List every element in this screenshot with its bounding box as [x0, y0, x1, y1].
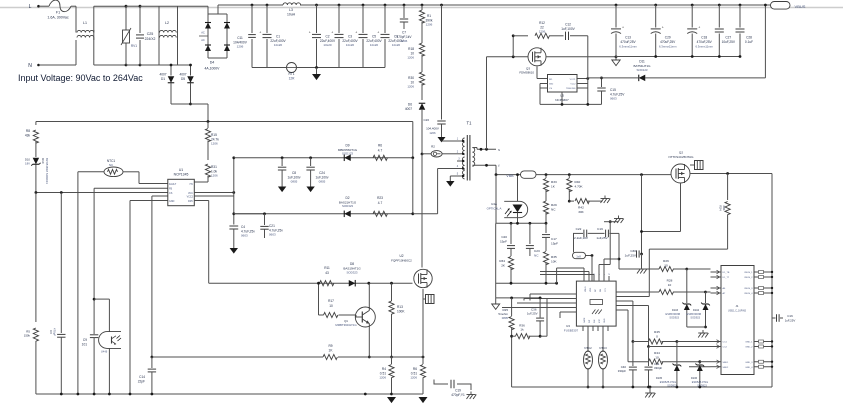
wire U2 source	[422, 289, 424, 357]
optocoupler U4A	[517, 175, 519, 202]
svg-text:22pF: 22pF	[138, 380, 145, 384]
resistor R4	[391, 357, 393, 364]
svg-text:0805: 0805	[502, 316, 509, 320]
wire VCC2 pin	[194, 195, 234, 197]
svg-text:150k: 150k	[24, 334, 31, 338]
svg-text:C27: C27	[725, 36, 731, 40]
wire VCC to C21 row	[234, 213, 265, 215]
bridge rectifier D4	[178, 5, 209, 7]
wire fault pin	[139, 183, 168, 185]
svg-text:1206: 1206	[539, 29, 546, 33]
svg-text:C28: C28	[746, 36, 752, 40]
capacitor C5 22uF 400V	[362, 4, 365, 7]
svg-text:VBUS_4: VBUS_4	[744, 293, 753, 295]
svg-text:CC2: CC2	[723, 347, 728, 349]
svg-text:R2: R2	[431, 145, 435, 149]
svg-text:FB: FB	[169, 188, 172, 191]
resistor R9	[323, 354, 337, 359]
resistor R15	[205, 129, 210, 142]
capacitor C1 22uF 400V	[266, 4, 269, 7]
svg-text:R29: R29	[551, 203, 557, 207]
svg-text:1uF,25V: 1uF,25V	[527, 312, 538, 316]
svg-text:0603: 0603	[241, 234, 248, 238]
resistor R31	[205, 164, 210, 177]
svg-text:10K: 10K	[551, 259, 557, 263]
svg-text:10: 10	[329, 304, 333, 308]
svg-text:+: +	[377, 31, 379, 35]
svg-text:C13: C13	[625, 36, 631, 40]
zener D16	[699, 362, 701, 364]
thermistor RT1	[287, 63, 297, 73]
capacitor C23nc	[529, 223, 531, 244]
svg-text:+: +	[355, 31, 357, 35]
svg-text:10uH: 10uH	[287, 13, 296, 17]
svg-text:DRV: DRV	[188, 200, 193, 203]
transistor Q1	[355, 307, 375, 327]
wire aux supply row	[234, 157, 413, 159]
common-mode choke L2	[140, 5, 159, 7]
resistor R24	[727, 174, 729, 201]
varistor RV1	[125, 5, 128, 8]
wire U3 left pin rows	[530, 293, 571, 295]
capacitor C18	[691, 4, 694, 7]
transformer pin stubs	[456, 140, 465, 142]
wire secondary pin top	[472, 147, 477, 149]
resistor R30	[419, 72, 424, 85]
svg-text:10: 10	[664, 263, 668, 267]
capacitor C9	[93, 188, 95, 334]
wire D11 to VBUS rail	[764, 5, 766, 78]
svg-text:D5: D5	[181, 77, 185, 81]
svg-text:10uF,25V: 10uF,25V	[722, 40, 736, 44]
diode D8	[349, 280, 356, 287]
svg-text:ESD5Z5.0T1G: ESD5Z5.0T1G	[692, 381, 708, 384]
svg-text:43: 43	[325, 271, 329, 275]
svg-text:BZX84B18 SOD923: BZX84B18 SOD923	[45, 158, 49, 184]
svg-text:0603: 0603	[610, 96, 617, 100]
svg-text:C14: C14	[139, 375, 145, 379]
MOSFET U2	[421, 258, 423, 268]
wire source rail	[152, 356, 323, 358]
wire R17 branch	[318, 283, 320, 315]
svg-text:GND_2: GND_2	[745, 347, 753, 349]
resistor R29	[543, 201, 548, 214]
MOSFET Q3	[528, 48, 546, 66]
svg-text:1206: 1206	[379, 376, 386, 380]
wire Q3 source to gnd bus	[546, 56, 616, 58]
resistor R1	[421, 4, 424, 7]
wire NTC column	[77, 172, 79, 394]
capacitor C20	[510, 223, 512, 244]
svg-text:R4: R4	[382, 367, 386, 371]
resistor R44	[621, 309, 628, 311]
wire CC row 1	[621, 300, 633, 302]
svg-text:ESD5Z5.0T1G: ESD5Z5.0T1G	[660, 381, 676, 384]
svg-text:C11: C11	[237, 36, 243, 40]
wire comp row to U3	[496, 282, 557, 284]
svg-text:D10: D10	[41, 158, 45, 164]
svg-text:1uF,100V: 1uF,100V	[561, 27, 575, 31]
MOSFET Q2	[671, 164, 690, 183]
svg-text:+: +	[259, 31, 261, 35]
svg-text:AC: AC	[201, 31, 205, 35]
diode D2	[344, 211, 351, 218]
wire drain column	[421, 153, 424, 156]
resistor R40	[568, 175, 570, 178]
wire U1 pin4 column	[151, 196, 153, 357]
wire snubber column	[512, 36, 514, 57]
svg-text:GND_4: GND_4	[745, 367, 753, 369]
wire sense right branch	[546, 299, 548, 337]
svg-text:R31: R31	[211, 165, 217, 169]
U3 crystal	[590, 300, 603, 305]
capacitor C7	[403, 4, 406, 7]
svg-text:224/X2: 224/X2	[145, 37, 156, 41]
wire secondary bottom rail	[512, 386, 772, 388]
svg-text:R13: R13	[397, 305, 403, 309]
window top border line	[0, 7, 843, 9]
svg-text:+: +	[331, 31, 333, 35]
wire VCC2 row	[234, 213, 413, 215]
svg-text:U3: U3	[566, 324, 570, 328]
earth R42	[604, 196, 606, 199]
svg-text:1uF,25V: 1uF,25V	[596, 236, 608, 240]
svg-text:C25: C25	[147, 32, 154, 36]
svg-text:1206: 1206	[407, 56, 414, 60]
svg-text:C6: C6	[49, 330, 53, 334]
svg-text:1206: 1206	[237, 45, 244, 49]
resistor R6	[373, 155, 387, 160]
U3 inner hatch	[592, 310, 595, 315]
svg-text:ISN: ISN	[594, 319, 596, 323]
svg-text:SOD123: SOD123	[636, 68, 647, 72]
diode D5	[190, 65, 192, 76]
svg-text:R24: R24	[719, 205, 723, 211]
wire bottom rail primary	[36, 393, 392, 395]
wire gate feed row	[649, 248, 727, 250]
svg-text:SOD323: SOD323	[346, 270, 357, 274]
svg-text:SOD323: SOD323	[342, 204, 353, 208]
capacitor C4	[229, 225, 238, 227]
svg-text:470pF: 470pF	[53, 328, 57, 336]
wire VCC column	[233, 158, 235, 225]
capacitor C16	[772, 317, 776, 319]
wire HV rail corner down	[412, 122, 414, 158]
zener D15	[676, 342, 678, 365]
wire FB	[94, 187, 168, 189]
svg-text:104,400V: 104,400V	[426, 126, 439, 130]
J1 left pins	[711, 271, 722, 273]
svg-text:330pF: 330pF	[618, 369, 626, 373]
svg-text:101: 101	[82, 343, 88, 347]
svg-text:GATE: GATE	[583, 317, 586, 323]
svg-text:NC: NC	[551, 208, 556, 212]
diode D11	[588, 77, 638, 79]
wire SR drain row	[487, 56, 529, 58]
svg-text:4.70K: 4.70K	[575, 185, 584, 189]
svg-text:1206: 1206	[211, 174, 218, 178]
svg-text:+: +	[622, 25, 624, 29]
wire Q2 out	[690, 173, 772, 175]
wire aux to bias vertical	[411, 156, 414, 159]
svg-text:R6: R6	[413, 367, 417, 371]
U3 left pins	[571, 293, 576, 295]
ground arrow bulk	[315, 66, 318, 69]
resistor R12	[513, 35, 528, 37]
svg-text:USB2_C_16PINS: USB2_C_16PINS	[728, 311, 747, 313]
svg-text:D104: D104	[693, 309, 700, 312]
wire D1 D5 to HV column	[171, 103, 191, 105]
svg-text:DM: DM	[600, 289, 602, 292]
svg-text:U2: U2	[399, 254, 403, 258]
svg-text:L2: L2	[165, 21, 169, 25]
svg-text:R40: R40	[575, 180, 581, 184]
svg-text:D1_T7: D1_T7	[723, 277, 730, 279]
svg-text:R30: R30	[408, 76, 414, 80]
svg-text:CC1: CC1	[723, 342, 728, 344]
svg-text:OPTICAL A: OPTICAL A	[487, 206, 502, 210]
svg-text:R6: R6	[378, 144, 382, 148]
capacitor C17	[545, 223, 547, 233]
svg-text:VCC2: VCC2	[187, 196, 194, 199]
svg-text:R42: R42	[578, 206, 584, 210]
earth zeners mid	[687, 326, 706, 328]
svg-text:VBB: VBB	[506, 174, 514, 178]
svg-text:VBUS_2: VBUS_2	[744, 277, 753, 279]
svg-text:330pF: 330pF	[654, 366, 662, 370]
svg-text:C5: C5	[372, 35, 376, 39]
wire 1V8 to U3	[586, 255, 593, 257]
svg-text:D106: D106	[691, 377, 698, 380]
svg-text:30K: 30K	[578, 210, 584, 214]
svg-text:C2: C2	[325, 35, 329, 39]
wire aux row to transformer pin4	[413, 213, 438, 215]
U3 right pins	[616, 291, 621, 293]
heatsink tab Q2	[695, 161, 704, 170]
resistor R23	[373, 211, 387, 216]
svg-text:MMBT3904LT1G: MMBT3904LT1G	[335, 323, 356, 327]
inductor L3	[283, 3, 301, 5]
ground arrow aux	[450, 175, 455, 177]
svg-text:GND_3: GND_3	[745, 362, 753, 364]
svg-text:L1: L1	[83, 21, 87, 25]
capacitor C29	[654, 4, 657, 7]
capacitor C9b 22uF 400V	[384, 4, 387, 7]
wire CC2 row	[621, 305, 649, 307]
svg-text:SOD923: SOD923	[667, 385, 677, 388]
port VBB	[521, 171, 537, 178]
wire Q1 collector	[368, 283, 370, 307]
svg-text:SOD923: SOD923	[697, 385, 707, 388]
svg-text:1206: 1206	[410, 376, 417, 380]
wire L to choke	[71, 5, 76, 7]
connector J1	[721, 266, 754, 375]
zener D10	[33, 158, 40, 165]
svg-text:4.7: 4.7	[378, 201, 383, 205]
svg-text:SOD923: SOD923	[669, 317, 679, 320]
svg-text:C1: C1	[276, 35, 280, 39]
svg-text:SOD923: SOD923	[690, 317, 700, 320]
wire R26 row	[619, 268, 659, 270]
resistor R8	[35, 122, 37, 126]
svg-text:C3: C3	[348, 35, 352, 39]
svg-text:N: N	[28, 63, 32, 69]
wire Q1 emitter	[368, 327, 370, 357]
svg-text:FUSB3307: FUSB3307	[564, 329, 579, 333]
svg-text:10x20: 10x20	[346, 43, 355, 47]
svg-text:43k: 43k	[25, 134, 31, 138]
svg-text:HV: HV	[190, 183, 194, 186]
port 1V8	[573, 252, 586, 258]
wire bridge top to rail	[217, 5, 219, 14]
svg-text:4.7: 4.7	[378, 148, 383, 152]
svg-text:NTC3: NTC3	[599, 346, 607, 350]
wire primary pin1 feed	[442, 140, 456, 142]
IC U3 FUSB3307	[576, 281, 616, 326]
svg-text:SOD123: SOD123	[342, 152, 353, 156]
chassis C30	[641, 254, 643, 266]
capacitor C41	[648, 347, 650, 367]
svg-text:C29: C29	[665, 36, 671, 40]
svg-text:R8: R8	[26, 129, 30, 133]
wire CS rail	[36, 192, 168, 194]
wire opto col down	[495, 223, 497, 298]
capacitor C3 22uF 400V	[338, 4, 341, 7]
U3 bottom pins	[582, 326, 584, 331]
chassis mid 2	[609, 220, 612, 223]
svg-text:VBUS: VBUS	[795, 4, 806, 9]
svg-text:VLL2: VLL2	[570, 84, 576, 86]
resistor R35	[543, 252, 548, 265]
J1 right pins	[754, 271, 772, 273]
wire output gnd bus	[616, 56, 740, 58]
svg-text:TRIG/DIS: TRIG/DIS	[566, 88, 576, 90]
zener D13	[686, 269, 688, 303]
svg-text:ESD5V0D3B: ESD5V0D3B	[666, 313, 681, 316]
svg-text:RT1: RT1	[289, 72, 295, 76]
svg-text:CS: CS	[549, 88, 553, 90]
diode D6	[419, 103, 426, 110]
svg-text:1.6A, 300Vac: 1.6A, 300Vac	[47, 16, 69, 20]
wire VBB row	[536, 174, 671, 176]
svg-text:NTTFS4C25NTAG: NTTFS4C25NTAG	[669, 155, 695, 159]
capacitor C8	[281, 158, 283, 166]
capacitor C40	[632, 342, 634, 367]
resistor R28	[621, 291, 659, 293]
wire VCC pin to C4 column	[194, 192, 234, 194]
optocoupler U4B	[93, 298, 96, 301]
svg-text:C26: C26	[423, 118, 429, 122]
svg-text:Q2: Q2	[679, 151, 683, 155]
svg-text:1206: 1206	[429, 131, 436, 135]
svg-text:SBU1: SBU1	[723, 362, 729, 364]
svg-text:VBUS_1: VBUS_1	[744, 272, 753, 274]
svg-text:1k: 1k	[520, 328, 524, 332]
earth ground C19	[470, 392, 472, 395]
capacitor C28	[739, 4, 742, 7]
capacitor C24	[310, 158, 312, 166]
svg-text:D4: D4	[210, 61, 215, 65]
svg-text:R1: R1	[427, 14, 431, 18]
fuse F1	[49, 0, 71, 12]
wire cap bank bottom bus	[252, 67, 286, 69]
U3 top pins	[583, 276, 585, 281]
svg-text:AC: AC	[201, 38, 205, 42]
wire gate feed to U3 right	[621, 296, 649, 298]
svg-text:L3: L3	[289, 8, 293, 12]
wire sense row right	[579, 354, 581, 356]
svg-text:U1: U1	[179, 168, 183, 172]
svg-text:6.3mmx11mm: 6.3mmx11mm	[695, 44, 713, 48]
capacitor C14	[151, 357, 153, 368]
ground output	[615, 57, 617, 61]
svg-text:T1: T1	[467, 121, 473, 126]
svg-text:10x20: 10x20	[370, 43, 379, 47]
wire bundle into U3 top	[588, 272, 590, 277]
svg-text:0805: 0805	[319, 179, 326, 183]
resistor R46	[649, 339, 663, 344]
svg-text:0: 0	[656, 334, 658, 338]
wire U5 right pins	[577, 78, 588, 80]
svg-text:VBUS: VBUS	[585, 286, 587, 292]
svg-text:D1: D1	[161, 77, 165, 81]
svg-text:10x20: 10x20	[274, 43, 283, 47]
resistor R42	[569, 200, 574, 202]
svg-text:R15: R15	[211, 133, 217, 137]
svg-text:R33: R33	[551, 180, 557, 184]
wire VCC1 column	[587, 36, 589, 105]
resistor R11	[320, 281, 334, 286]
wire main DC rail	[227, 4, 283, 6]
svg-text:NC: NC	[534, 253, 539, 257]
svg-text:J1: J1	[736, 304, 739, 308]
svg-text:FQPF10N60C2: FQPF10N60C2	[391, 259, 412, 263]
capacitor C22 C23 feedback	[573, 232, 583, 234]
svg-text:GND: GND	[169, 200, 175, 203]
wire GND pin	[130, 200, 168, 202]
svg-text:F1: F1	[56, 11, 60, 15]
IC U5 NCP4307	[548, 75, 578, 93]
capacitor C2 22uF 400V	[315, 4, 318, 7]
svg-text:0.1uF: 0.1uF	[745, 40, 753, 44]
svg-text:15pF: 15pF	[500, 239, 507, 243]
capacitor C26 snubber	[440, 4, 443, 7]
svg-text:R17: R17	[328, 299, 334, 303]
diode D9	[344, 155, 351, 162]
svg-text:VBUS_3: VBUS_3	[744, 288, 753, 290]
svg-text:15pF: 15pF	[551, 241, 558, 245]
wire choke L1 to filter	[93, 6, 95, 65]
svg-text:1206: 1206	[211, 142, 218, 146]
wire Q3 gate	[536, 66, 538, 78]
wire SBU row	[689, 366, 711, 368]
svg-text:GND_1: GND_1	[745, 342, 753, 344]
wire secondary pin bottom	[472, 164, 496, 166]
svg-text:1206: 1206	[426, 23, 433, 27]
svg-text:0805: 0805	[291, 179, 298, 183]
svg-text:U4-B: U4-B	[101, 350, 108, 354]
NTC3	[602, 331, 604, 352]
svg-text:10: 10	[655, 355, 659, 359]
svg-text:0603: 0603	[269, 233, 276, 237]
svg-text:FDMS8610: FDMS8610	[519, 70, 534, 74]
wire HV column R15 R31	[207, 122, 209, 129]
svg-text:10x20: 10x20	[392, 43, 401, 47]
wire DRV row	[209, 282, 413, 284]
svg-text:D6: D6	[408, 103, 412, 107]
svg-text:R9: R9	[328, 344, 332, 348]
resistor R6b	[422, 357, 424, 364]
